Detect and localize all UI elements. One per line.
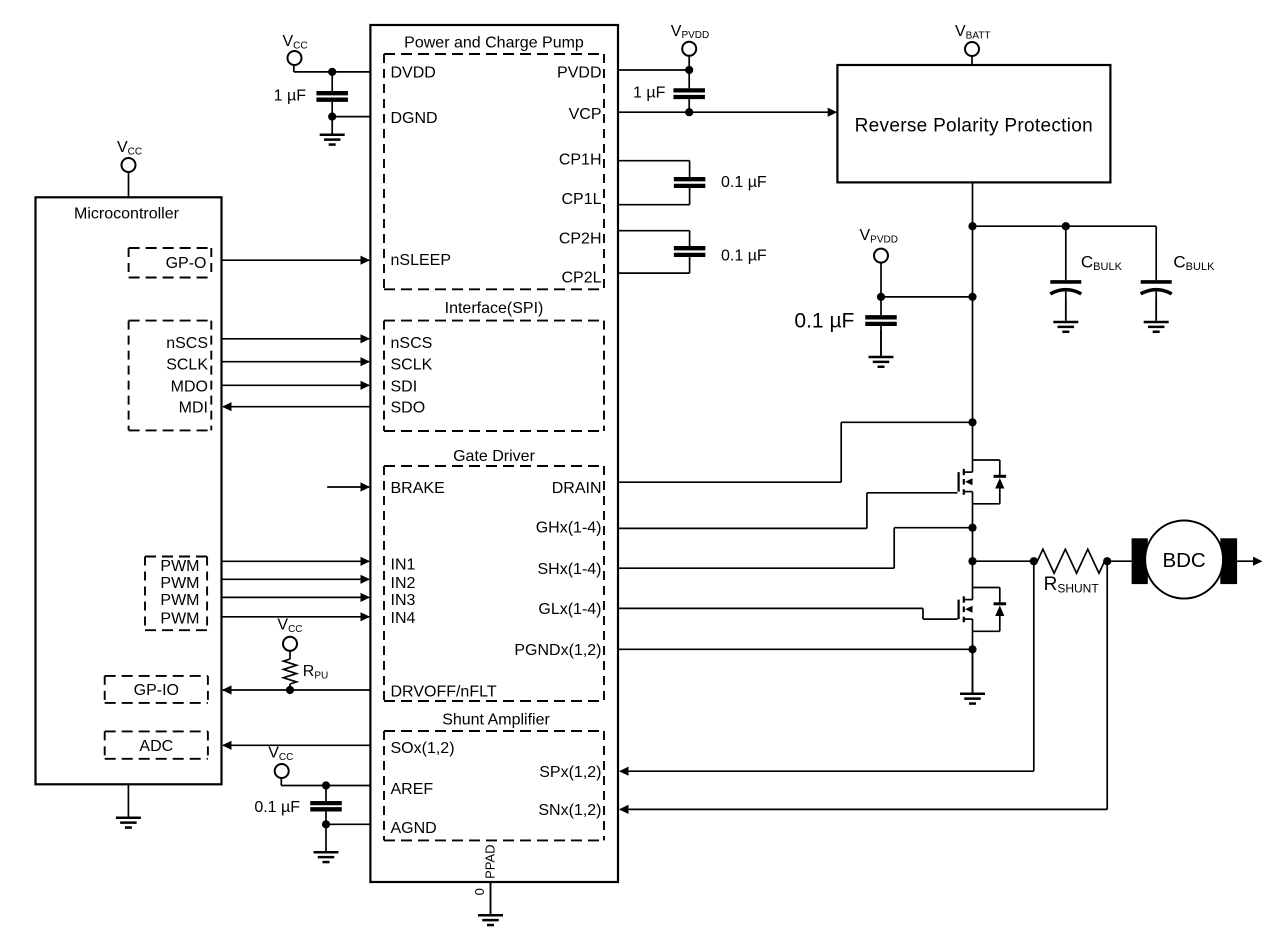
svg-text:DVDD: DVDD <box>391 64 436 81</box>
svg-text:SNx(1,2): SNx(1,2) <box>538 802 601 819</box>
svg-text:DGND: DGND <box>391 110 438 127</box>
svg-text:PWM: PWM <box>160 575 199 592</box>
svg-text:1 µF: 1 µF <box>274 88 307 105</box>
svg-text:SCLK: SCLK <box>166 356 208 373</box>
svg-text:Shunt Amplifier: Shunt Amplifier <box>442 712 550 729</box>
svg-text:MDI: MDI <box>179 400 208 417</box>
svg-text:0.1 µF: 0.1 µF <box>721 247 767 264</box>
svg-text:0: 0 <box>472 888 487 895</box>
svg-text:VCP: VCP <box>569 106 602 123</box>
svg-text:IN3: IN3 <box>391 592 416 609</box>
svg-text:Microcontroller: Microcontroller <box>74 206 180 223</box>
svg-text:BRAKE: BRAKE <box>391 480 445 497</box>
svg-text:1 µF: 1 µF <box>633 85 666 102</box>
svg-text:Reverse Polarity Protection: Reverse Polarity Protection <box>855 116 1093 137</box>
svg-text:0.1 µF: 0.1 µF <box>254 799 300 816</box>
svg-text:PWM: PWM <box>160 592 199 609</box>
svg-text:BDC: BDC <box>1162 549 1205 572</box>
svg-text:SDI: SDI <box>391 379 418 396</box>
svg-text:0.1 µF: 0.1 µF <box>794 310 854 333</box>
svg-text:Power and Charge Pump: Power and Charge Pump <box>404 35 584 52</box>
svg-text:GP-O: GP-O <box>166 255 207 272</box>
svg-text:AREF: AREF <box>391 781 434 798</box>
svg-text:GLx(1-4): GLx(1-4) <box>538 601 601 618</box>
svg-text:CP2L: CP2L <box>561 270 601 287</box>
svg-text:DRAIN: DRAIN <box>552 480 602 497</box>
svg-text:SHx(1-4): SHx(1-4) <box>537 561 601 578</box>
svg-text:nSCS: nSCS <box>391 335 433 352</box>
svg-text:IN2: IN2 <box>391 575 416 592</box>
svg-text:DRVOFF/nFLT: DRVOFF/nFLT <box>391 683 497 700</box>
svg-text:IN4: IN4 <box>391 610 416 627</box>
svg-text:PVDD: PVDD <box>557 64 601 81</box>
svg-text:nSLEEP: nSLEEP <box>391 252 451 269</box>
svg-text:nSCS: nSCS <box>166 335 208 352</box>
svg-text:SCLK: SCLK <box>391 356 433 373</box>
svg-text:PWM: PWM <box>160 558 199 575</box>
svg-text:SOx(1,2): SOx(1,2) <box>391 740 455 757</box>
svg-text:ADC: ADC <box>139 738 173 755</box>
svg-text:IN1: IN1 <box>391 556 416 573</box>
svg-text:PGNDx(1,2): PGNDx(1,2) <box>514 642 601 659</box>
svg-text:Gate Driver: Gate Driver <box>453 448 535 465</box>
svg-text:CP2H: CP2H <box>559 230 602 247</box>
svg-text:GHx(1-4): GHx(1-4) <box>536 519 602 536</box>
svg-text:0.1 µF: 0.1 µF <box>721 174 767 191</box>
svg-text:SDO: SDO <box>391 400 426 417</box>
svg-text:GP-IO: GP-IO <box>134 682 179 699</box>
svg-text:CP1H: CP1H <box>559 152 602 169</box>
svg-text:CP1L: CP1L <box>561 191 601 208</box>
svg-text:PPAD: PPAD <box>483 844 498 878</box>
svg-text:PWM: PWM <box>160 610 199 627</box>
svg-text:MDO: MDO <box>171 379 208 396</box>
svg-text:Interface(SPI): Interface(SPI) <box>445 300 544 317</box>
svg-text:SPx(1,2): SPx(1,2) <box>539 764 601 781</box>
svg-text:AGND: AGND <box>391 820 437 837</box>
